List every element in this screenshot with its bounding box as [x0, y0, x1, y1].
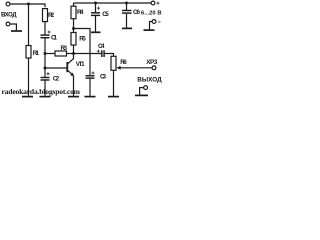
- wire collector node to C4: [74, 53, 102, 55]
- svg-text:R3: R3: [61, 45, 68, 52]
- supply rail: [74, 2, 152, 4]
- wire R2 to C1: [44, 22, 46, 35]
- resistor R4: [71, 3, 76, 29]
- capacitor C6: [122, 2, 132, 28]
- potentiometer R6: [111, 56, 152, 96]
- ground C2: [40, 96, 51, 98]
- ground output: [135, 94, 148, 96]
- ground C6: [122, 27, 132, 29]
- resistor R5: [71, 29, 76, 54]
- svg-text:ВХОД: ВХОД: [1, 13, 17, 19]
- capacitor C2: [41, 72, 50, 80]
- svg-text:C6: C6: [133, 9, 140, 16]
- svg-text:C2: C2: [53, 76, 60, 83]
- resistor R3: [45, 51, 74, 56]
- wire R1 to ground: [28, 58, 30, 96]
- wire input node down to R1: [28, 4, 30, 46]
- svg-text:C1: C1: [51, 35, 57, 42]
- input terminal XS1 upper: [6, 2, 10, 6]
- junction collector node: [72, 52, 75, 55]
- wire C2 to ground: [44, 81, 46, 96]
- ground R1: [22, 96, 33, 98]
- svg-text:ВЫХОД: ВЫХОД: [137, 76, 162, 83]
- svg-text:XP3: XP3: [146, 59, 157, 66]
- capacitor C4: [97, 50, 114, 57]
- svg-text:R4: R4: [77, 9, 84, 16]
- capacitor C5: [91, 2, 100, 32]
- junction input/R1 node: [27, 3, 30, 6]
- svg-text:C5: C5: [102, 11, 109, 18]
- svg-text:radeokarda.blogspot.com: radeokarda.blogspot.com: [2, 87, 81, 96]
- svg-text:R2: R2: [48, 12, 55, 19]
- ground C3: [85, 96, 96, 98]
- wire C3 to ground: [89, 79, 91, 96]
- output terminal XP3: [152, 66, 156, 70]
- capacitor C3: [86, 72, 95, 79]
- svg-text:6...20 В: 6...20 В: [141, 11, 162, 17]
- resistor R2: [43, 9, 48, 22]
- transistor VT1: [67, 54, 74, 77]
- wire C1 to base node and C2: [44, 38, 46, 77]
- wire emitter to ground: [73, 76, 75, 96]
- svg-text:VT1: VT1: [76, 61, 85, 68]
- svg-text:R1: R1: [33, 50, 40, 57]
- wire lower input to ground: [10, 24, 16, 30]
- wire input rail to R2: [10, 4, 45, 7]
- svg-text:R5: R5: [79, 36, 86, 43]
- ground VT1 emitter: [68, 96, 79, 98]
- svg-text:R6: R6: [120, 59, 127, 66]
- input terminal XS2 lower: [6, 22, 10, 26]
- svg-text:C4: C4: [98, 43, 105, 50]
- ground input: [11, 30, 22, 32]
- supply terminal plus: [151, 1, 159, 5]
- ground minus terminal: [144, 29, 155, 31]
- wire base: [45, 67, 67, 69]
- wire node X to C3: [74, 29, 91, 76]
- svg-text:C3: C3: [100, 74, 106, 81]
- supply terminal minus: [150, 20, 161, 30]
- junction R4/R5 node: [72, 27, 75, 30]
- output ground terminal: [140, 86, 148, 95]
- junction base/C2 node: [44, 67, 47, 70]
- ground C5: [91, 31, 101, 33]
- ground R6: [108, 96, 119, 98]
- resistor R1: [26, 46, 31, 59]
- junction C1/R3 node: [44, 52, 47, 55]
- capacitor C1: [41, 31, 51, 38]
